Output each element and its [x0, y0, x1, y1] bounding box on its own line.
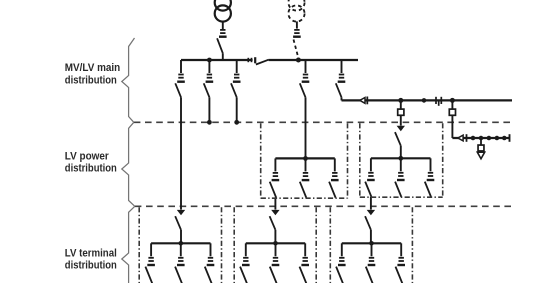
- svg-text:LV terminal: LV terminal: [65, 247, 117, 259]
- svg-text:distribution: distribution: [65, 260, 117, 272]
- svg-text:MV/LV main: MV/LV main: [65, 62, 120, 74]
- svg-text:distribution: distribution: [65, 74, 117, 86]
- svg-text:LV power: LV power: [65, 150, 110, 162]
- svg-text:distribution: distribution: [65, 163, 117, 175]
